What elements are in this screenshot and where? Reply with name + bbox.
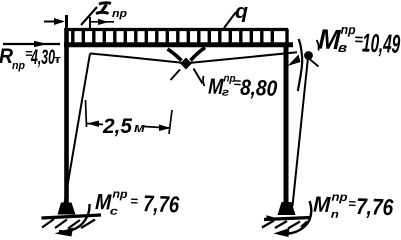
- left support ground line: [42, 215, 102, 218]
- svg-text:c: c: [110, 206, 118, 218]
- svg-text:np: np: [331, 190, 347, 205]
- svg-text:np: np: [112, 187, 127, 202]
- leader line for q label: [224, 12, 236, 28]
- leader line for I label: [81, 7, 97, 25]
- svg-text:7,76: 7,76: [143, 190, 180, 217]
- right support base: [278, 202, 296, 215]
- moment arrow at left support (Mc): [55, 204, 90, 237]
- small arrow on beam axis: [91, 19, 114, 25]
- right support hatching: [262, 221, 307, 229]
- dimension 2,5 m : left tick: [86, 100, 87, 127]
- svg-text:q: q: [235, 1, 248, 23]
- moment arrow at top right joint (Mb): [288, 39, 319, 91]
- svg-text:2,5: 2,5: [102, 115, 132, 138]
- arrow pointing at top of left column: [44, 18, 65, 25]
- svg-text:np: np: [12, 60, 25, 72]
- label Mg = 8,80: [208, 72, 279, 101]
- label q: [235, 1, 248, 23]
- right column: [284, 45, 289, 206]
- tick at beam axis: [89, 17, 91, 28]
- svg-text:м: м: [134, 120, 145, 135]
- svg-text:10,49: 10,49: [362, 28, 401, 59]
- label Mc = 7,76: [95, 186, 180, 220]
- moment diagram line on right column: [293, 58, 309, 207]
- label I_pr: [96, 3, 127, 20]
- svg-text:8,80: 8,80: [240, 75, 279, 101]
- svg-text:т: т: [54, 54, 62, 66]
- distributed load q band: top edge: [66, 28, 288, 31]
- right support ground line: [264, 215, 311, 221]
- tick before Mg label: [203, 76, 205, 86]
- svg-text:4,30: 4,30: [30, 46, 55, 69]
- svg-text:M: M: [313, 192, 331, 218]
- node dot at top right joint: [304, 51, 313, 60]
- diamond marker at mid-span (Mg point): [180, 58, 192, 70]
- load band right edge: [285, 29, 288, 45]
- label Mp = 7,76: [313, 189, 394, 223]
- tick before Mb label: [317, 40, 319, 51]
- dimension left arrow: [87, 121, 103, 128]
- arrow for R_pr force: [3, 41, 60, 47]
- left column: [65, 15, 68, 206]
- svg-text:np: np: [112, 8, 127, 20]
- dimension label 2,5 m: [102, 115, 145, 138]
- moment diagram line on beam: [90, 52, 297, 63]
- leader strokes at diamond: [168, 48, 206, 84]
- label R_pr = 4,30 t: [0, 45, 62, 72]
- dimension right tick: [169, 110, 172, 134]
- svg-text:n: n: [331, 209, 340, 221]
- svg-text:в: в: [338, 40, 348, 55]
- moment arrow at right support (Mp): [274, 201, 312, 237]
- load band hatch bars: [73, 30, 272, 43]
- svg-text:=: =: [130, 193, 139, 208]
- moment diagram line on left column: [65, 54, 91, 204]
- left support base: [58, 203, 76, 215]
- svg-text:г: г: [222, 86, 230, 98]
- dimension right arrow: [144, 125, 171, 132]
- svg-text:7,76: 7,76: [356, 193, 394, 220]
- left support hatching: [42, 219, 95, 229]
- label Mb = 10,49: [318, 21, 401, 59]
- beam (band bottom edge): [64, 42, 293, 47]
